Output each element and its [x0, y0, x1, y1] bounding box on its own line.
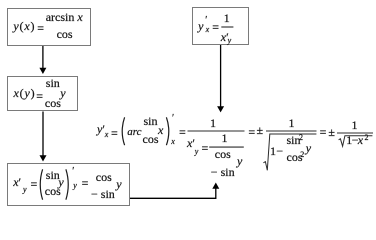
FRAC2 sin2 [287, 134, 301, 146]
FRAC1 x'y [187, 137, 195, 149]
box B1 frame [7, 8, 91, 46]
B4 y' [198, 20, 203, 32]
B2 y [60, 87, 65, 99]
FRAC1 cos [215, 148, 231, 160]
arrow A3 elbow from box3 [130, 189, 216, 199]
FRAC2 1 minus [270, 145, 276, 157]
F right paren [166, 117, 168, 145]
FRAC1 inner bar [209, 146, 244, 148]
F sub x after paren [171, 138, 175, 146]
B3 equals2 [82, 177, 89, 189]
B3 prime after paren [72, 167, 74, 177]
arrow A4 head [217, 106, 224, 112]
B3 cos right [96, 171, 112, 183]
B3 cos [45, 185, 61, 197]
B3 minus sin [91, 188, 115, 200]
FRAC1 main bar [188, 130, 245, 132]
B3 x'y [13, 176, 21, 188]
FRAC2 cos2 [287, 151, 303, 163]
F equals4 [320, 126, 327, 138]
FRAC3 numerator 1 [352, 119, 358, 131]
FRAC2 main bar [266, 130, 317, 132]
B2 text x(y) [14, 87, 36, 99]
box B2 frame [7, 76, 78, 111]
B4 equals [212, 21, 219, 33]
arrow A4 box4->formula line [220, 45, 222, 107]
FRAC1 minus sin [211, 166, 235, 178]
B4 x'y denominator [221, 31, 229, 43]
B4 numerator 1 [224, 12, 230, 24]
B2 sin [46, 77, 60, 89]
FRAC2 y [306, 142, 311, 154]
box B4 frame [192, 7, 249, 45]
F plusminus2 [328, 126, 335, 138]
FRAC3 content 1-x2 [346, 134, 352, 146]
B1 numerator arcsin x [46, 11, 83, 23]
FRAC1 y sub [237, 155, 242, 167]
F equals1 [111, 127, 118, 139]
FRAC3 radical [339, 136, 373, 146]
arrow A1 box1->box2 line [42, 46, 44, 69]
B3 y right [116, 178, 121, 190]
FORMULA y'x [97, 123, 105, 135]
B3 y inner [58, 176, 63, 188]
F prime after paren [172, 114, 174, 124]
F sin [144, 115, 158, 127]
F plusminus1 [257, 124, 264, 136]
arrow A2 head [40, 155, 47, 161]
F equals3 [248, 126, 255, 138]
B3 sin [46, 169, 60, 181]
B3 equals1 [31, 178, 38, 190]
FRAC1 inner 1 [222, 132, 228, 144]
B3 sub y after paren [73, 182, 77, 190]
B3 right paren [66, 169, 68, 199]
F left paren [122, 117, 124, 145]
B1 equals [37, 22, 44, 34]
F equals2 [179, 126, 186, 138]
FRAC1 numerator 1 [210, 117, 216, 129]
arrow A3 head [212, 183, 219, 189]
F arc [127, 127, 141, 138]
B4 fraction bar [221, 26, 233, 28]
FRAC2 numerator 1 [289, 117, 295, 129]
B2 equals [36, 90, 43, 102]
arrow A1 head [39, 68, 46, 74]
FRAC3 main bar [337, 132, 373, 134]
F cos [143, 133, 159, 145]
B1 denominator cos [57, 28, 73, 40]
FRAC2 radical [263, 134, 316, 170]
FRAC1 equals [202, 142, 209, 154]
arrow A2 box2->box3 line [42, 112, 44, 157]
B1 text y(x) [13, 20, 35, 32]
F x [158, 124, 163, 136]
box B3 frame [7, 163, 130, 206]
B3 left paren [40, 169, 42, 199]
B2 cos [45, 97, 61, 109]
